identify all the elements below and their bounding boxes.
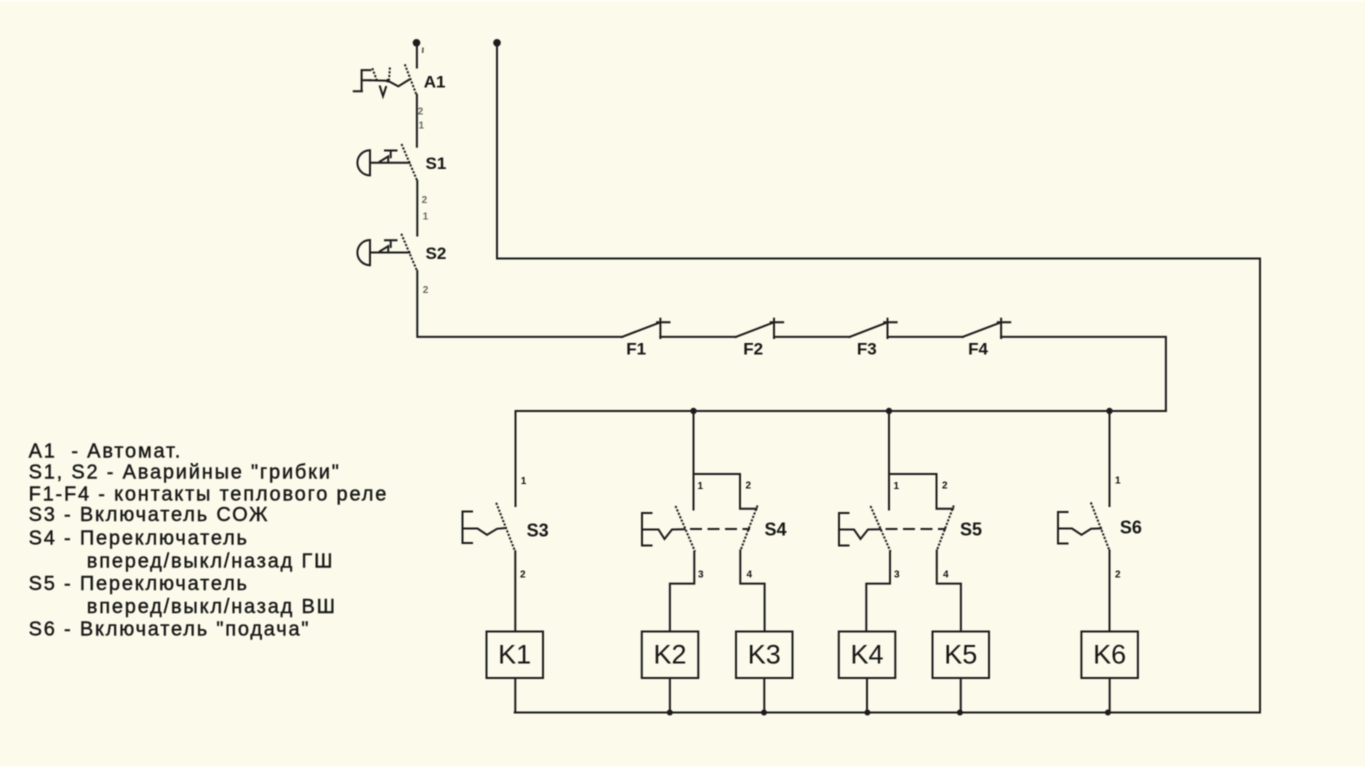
svg-text:S6: S6 [1120,518,1142,538]
svg-text:вперед/выкл/назад ГШ: вперед/выкл/назад ГШ [87,551,334,573]
svg-text:вперед/выкл/назад ВШ: вперед/выкл/назад ВШ [87,596,337,618]
wire: F3 to F4 [888,336,963,338]
label S3 [527,520,549,540]
pushbutton S2 T mark [385,240,397,247]
wire: K4 to bottom bus [866,678,868,713]
coil K5 box [933,632,990,679]
node: top terminal dot of return feed [493,39,501,47]
thermal contact F4 blade [963,322,1002,337]
wire: S4 pole 2 branch [694,474,757,509]
wire: F4 to right corner down to bus [1001,337,1166,411]
label S6 [1120,518,1142,538]
node junction bottombus-K2 [667,710,673,716]
svg-text:K5: K5 [944,640,977,670]
svg-text:1: 1 [1115,476,1121,487]
thermal contact F1 blade [622,322,660,337]
thermal contact F2 bar [771,319,783,338]
label F1 [626,340,646,359]
pin 2 of S4 [746,481,752,492]
pin 3 of S5 [894,570,900,581]
label K3 [748,640,781,670]
label A1 [424,73,446,92]
pin 2 of S3 [520,570,526,581]
svg-text:S4 - Переключатель: S4 - Переключатель [29,527,249,549]
wire: A1 to S1 [416,95,418,147]
node junction bus-S5 [886,408,892,414]
switch S5 right blade [937,506,954,551]
node junction bus-S6 [1106,408,1112,414]
svg-text:1: 1 [419,121,425,132]
pushbutton S1 mushroom head [357,150,370,175]
label F3 [857,340,877,359]
wire: F1 to F2 [660,336,735,338]
node junction bottombus-K3 [761,710,767,716]
node: top terminal dot of A1 feed [413,39,421,47]
thermal contact F3 blade [850,322,888,337]
breaker A1 arrow V [380,86,386,96]
svg-text:F3: F3 [857,340,877,359]
switch S4 gang dashed link [691,528,749,530]
svg-text:4: 4 [943,570,949,581]
svg-text:А1 - Автомат.: А1 - Автомат. [29,440,183,462]
svg-text:S4: S4 [765,520,787,540]
pin 2 of S5 [942,481,948,492]
svg-text:F4: F4 [968,340,988,359]
node junction bottombus-K4 [864,710,870,716]
svg-text:2: 2 [746,481,752,492]
switch S5 left blade [871,506,891,552]
wire: S4 pole1 to K2 [670,552,694,632]
wire: bus to S3 [515,411,517,506]
label S2 [426,244,447,263]
label K6 [1093,640,1126,670]
pin 4 of S5 [943,570,949,581]
pushbutton S1 blade [402,144,418,181]
svg-text:S5: S5 [960,520,982,540]
pin 2 of S1 [422,195,428,206]
wire: control bus [516,410,1166,412]
wire: K2 to bottom bus [669,678,671,713]
top light strip [0,0,1365,2]
svg-text:K2: K2 [653,640,686,670]
svg-text:F1-F4 - контакты теплового рел: F1-F4 - контакты теплового реле [29,483,389,505]
breaker A1 linkage [370,80,409,87]
wire: S6 to K6 [1109,551,1111,632]
svg-text:K6: K6 [1093,640,1126,670]
wire: S2 down and F-line left segment [417,271,622,337]
wire: K1 to bottom bus [514,678,516,713]
coil K1 box [487,632,544,679]
legend line 3 [29,483,389,505]
svg-text:1: 1 [698,481,704,492]
svg-text:S5 - Переключатель: S5 - Переключатель [29,573,249,595]
wire: S5 pole 2 branch [889,474,953,509]
legend line 7 [29,573,249,595]
svg-text:3: 3 [894,570,900,581]
legend line 6 [87,551,334,573]
legend line 4 [29,504,270,526]
wire: top terminal to A1 [416,46,418,68]
wire: bus to S5 [888,411,890,510]
wire: bottom bus [515,712,1260,714]
pin 2 of S6 [1115,570,1121,581]
svg-text:3: 3 [698,570,704,581]
legend line 1 [29,440,183,462]
svg-text:K1: K1 [498,640,531,670]
switch S6 blade [1091,502,1110,550]
switch S3 actuator link [464,528,506,535]
pushbutton S2 latch triangle [380,246,388,251]
legend line 2 [29,462,341,484]
wire: K5 to bottom bus [960,678,962,713]
wire: K3 to bottom bus [763,678,765,713]
wire: F2 to F3 [774,336,850,338]
svg-text:S1, S2 - Аварийные "грибки": S1, S2 - Аварийные "грибки" [29,462,341,484]
coil K6 box [1081,632,1138,679]
pushbutton S1 latch triangle [380,156,388,161]
wire: bus to S4 [693,411,695,510]
coil K4 box [839,632,896,679]
wire: K6 to bottom bus [1109,678,1111,713]
legend line 8 [87,596,337,618]
breaker A1 linkage dot [386,79,390,83]
label S4 [765,520,787,540]
pushbutton S2 link [371,252,410,254]
switch S6 actuator link [1059,528,1101,534]
switch S5 actuator link [840,529,881,539]
pin 1 of S3 [521,476,527,487]
wire: S5 pole1 to K4 [866,552,890,632]
breaker A1 trip bracket [354,70,371,91]
pin 4 of S4 [747,570,753,581]
wire: return feed right rail [497,46,1260,713]
pin 1 of S6 [1115,476,1121,487]
label K4 [850,640,883,670]
breaker A1 blade [405,64,417,95]
pushbutton S1 link [371,162,410,164]
legend line 5 [29,527,249,549]
breaker A1 hatch 1 [372,68,377,80]
label F4 [968,340,988,359]
svg-text:2: 2 [418,107,424,118]
thermal contact F2 blade [736,322,774,337]
switch S4 left blade [676,506,696,552]
svg-text:F1: F1 [626,340,646,359]
label K1 [498,640,531,670]
svg-text:S1: S1 [426,154,447,173]
pin 1 label of A1 [422,48,424,54]
svg-text:1: 1 [521,476,527,487]
node junction bottombus-K5 [957,710,963,716]
switch S5 actuator bracket [839,513,849,546]
thermal contact F4 bar [998,319,1010,338]
label K2 [653,640,686,670]
svg-text:K3: K3 [748,640,781,670]
switch S4 right blade [741,506,758,551]
wire: S3 to K1 [514,551,516,631]
pin 1 of S1 [419,121,425,132]
breaker A1 hatch 2 [388,68,391,80]
switch S4 actuator link [643,529,685,539]
pin 3 of S4 [698,570,704,581]
pin 2 of A1 [418,107,424,118]
label F2 [743,340,763,359]
svg-text:1: 1 [894,481,900,492]
svg-text:S6 - Включатель "подача": S6 - Включатель "подача" [29,618,311,640]
coil K2 box [642,632,699,679]
thermal contact F3 bar [884,319,896,338]
pin 1 of S4 [698,481,704,492]
pin 1 of S5 [894,481,900,492]
thermal contact F1 bar [657,319,669,338]
node junction bus-S4 [690,408,696,414]
wire: bus to S6 [1109,411,1111,506]
wire: S5 pole2 to K5 [937,551,961,632]
switch S3 blade [496,503,515,551]
svg-text:K4: K4 [850,640,883,670]
label S5 [960,520,982,540]
svg-text:2: 2 [422,195,428,206]
legend line 9 [29,618,311,640]
pin 2 of S2 [423,285,429,296]
svg-text:F2: F2 [743,340,763,359]
svg-text:4: 4 [747,570,753,581]
pushbutton S1 T mark [385,151,397,158]
node junction bottombus-K6 [1105,710,1111,716]
svg-text:2: 2 [520,570,526,581]
switch S5 gang dashed link [887,528,946,530]
svg-text:1: 1 [423,212,429,223]
svg-text:A1: A1 [424,73,446,92]
svg-text:S2: S2 [426,244,447,263]
bottom white strip [0,766,1365,769]
svg-text:2: 2 [1115,570,1121,581]
pin 1 of S2 [423,212,429,223]
label S1 [426,154,447,173]
switch S6 actuator bracket [1058,512,1068,544]
svg-text:S3: S3 [527,520,549,540]
switch S4 actuator bracket [642,513,652,546]
label K5 [944,640,977,670]
pushbutton S2 blade [401,234,417,271]
wire: S4 pole2 to K3 [740,551,764,632]
svg-text:2: 2 [423,285,429,296]
pushbutton S2 mushroom head [357,240,370,265]
coil K3 box [736,632,793,679]
switch S3 actuator bracket [463,512,473,544]
svg-text:2: 2 [942,481,948,492]
wire: S1 to S2 [416,181,418,236]
svg-text:S3 - Включатель СОЖ: S3 - Включатель СОЖ [29,504,270,526]
